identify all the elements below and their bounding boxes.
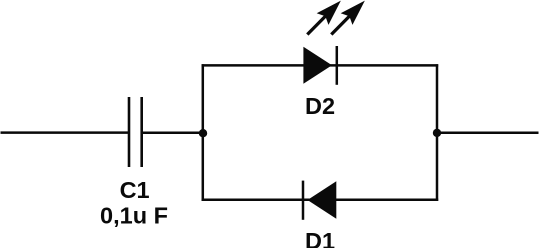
- LED D2 light arrow 1: [301, 0, 346, 40]
- wire right lead from node B: [437, 132, 539, 135]
- svg-text:D1: D1: [305, 228, 335, 248]
- wire top branch: [202, 64, 439, 67]
- LED D2 light arrow 2: [325, 0, 370, 40]
- wire loop left vertical: [202, 64, 205, 201]
- capacitor C1: [129, 97, 142, 167]
- node B junction dot: [433, 129, 441, 137]
- svg-text:C1: C1: [120, 177, 150, 203]
- node A junction dot: [199, 129, 207, 137]
- svg-text:D2: D2: [305, 93, 335, 119]
- svg-text:0,1u F: 0,1u F: [100, 203, 168, 229]
- diode D1: [303, 181, 336, 220]
- wire bottom branch: [202, 199, 439, 202]
- LED D2: [303, 46, 336, 85]
- wire left lead to C1: [1, 131, 129, 134]
- wire loop right vertical: [436, 64, 439, 201]
- wire C1 to node A: [143, 132, 203, 135]
